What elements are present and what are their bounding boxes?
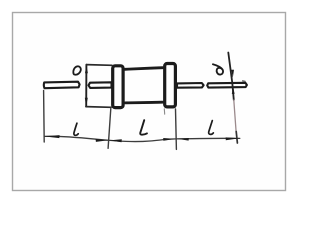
dimension d: lower dark part / right extension tick [236,132,237,144]
label D (rotated) [73,66,80,74]
label l (left) [74,123,78,135]
right end cap [165,64,176,107]
left end cap [113,66,123,108]
left lead (outer segment) [44,82,80,89]
dimension D: top extension line [86,64,112,67]
dimension d: faint middle continuation [234,100,236,133]
bottom dimension: arrowhead left of right l at second tick [177,138,189,141]
label L [140,120,147,135]
bottom dimension: left end arrowhead [44,135,59,138]
dimension D: bottom extension line [86,106,111,109]
faint stroke below right cap left edge [163,109,165,114]
dimension D: dimension line [85,65,87,107]
dimension D: lower arrowhead [85,98,88,106]
extension line at left cap edge [108,109,111,149]
dimension D: upper arrowhead [85,65,88,73]
label l (right) [209,121,214,135]
extension line at right cap edge [175,109,178,149]
left lead (inner segment) [89,82,112,88]
dimension d: dimension line (upper dark part) [228,53,234,101]
stray pen tick above right lead end [243,80,246,82]
dimension d: upper arrowhead [231,70,234,78]
label d (rotated) [217,68,223,75]
bottom dimension: arrowhead right of l into first tick [96,139,109,142]
dimension d: lower arrowhead [232,87,235,94]
bottom dimension: arrowhead right of L into second tick [163,138,175,141]
right lead (inner segment) [177,83,204,88]
extension line at left lead end [43,91,46,143]
bottom dimension: right end arrowhead [226,137,240,140]
right lead (outer segment) [207,83,247,88]
bottom dimension line l-L-l [44,136,240,141]
resistor body (tube between caps) [125,68,163,70]
bottom dimension: arrowhead left of L at first tick [109,139,121,142]
